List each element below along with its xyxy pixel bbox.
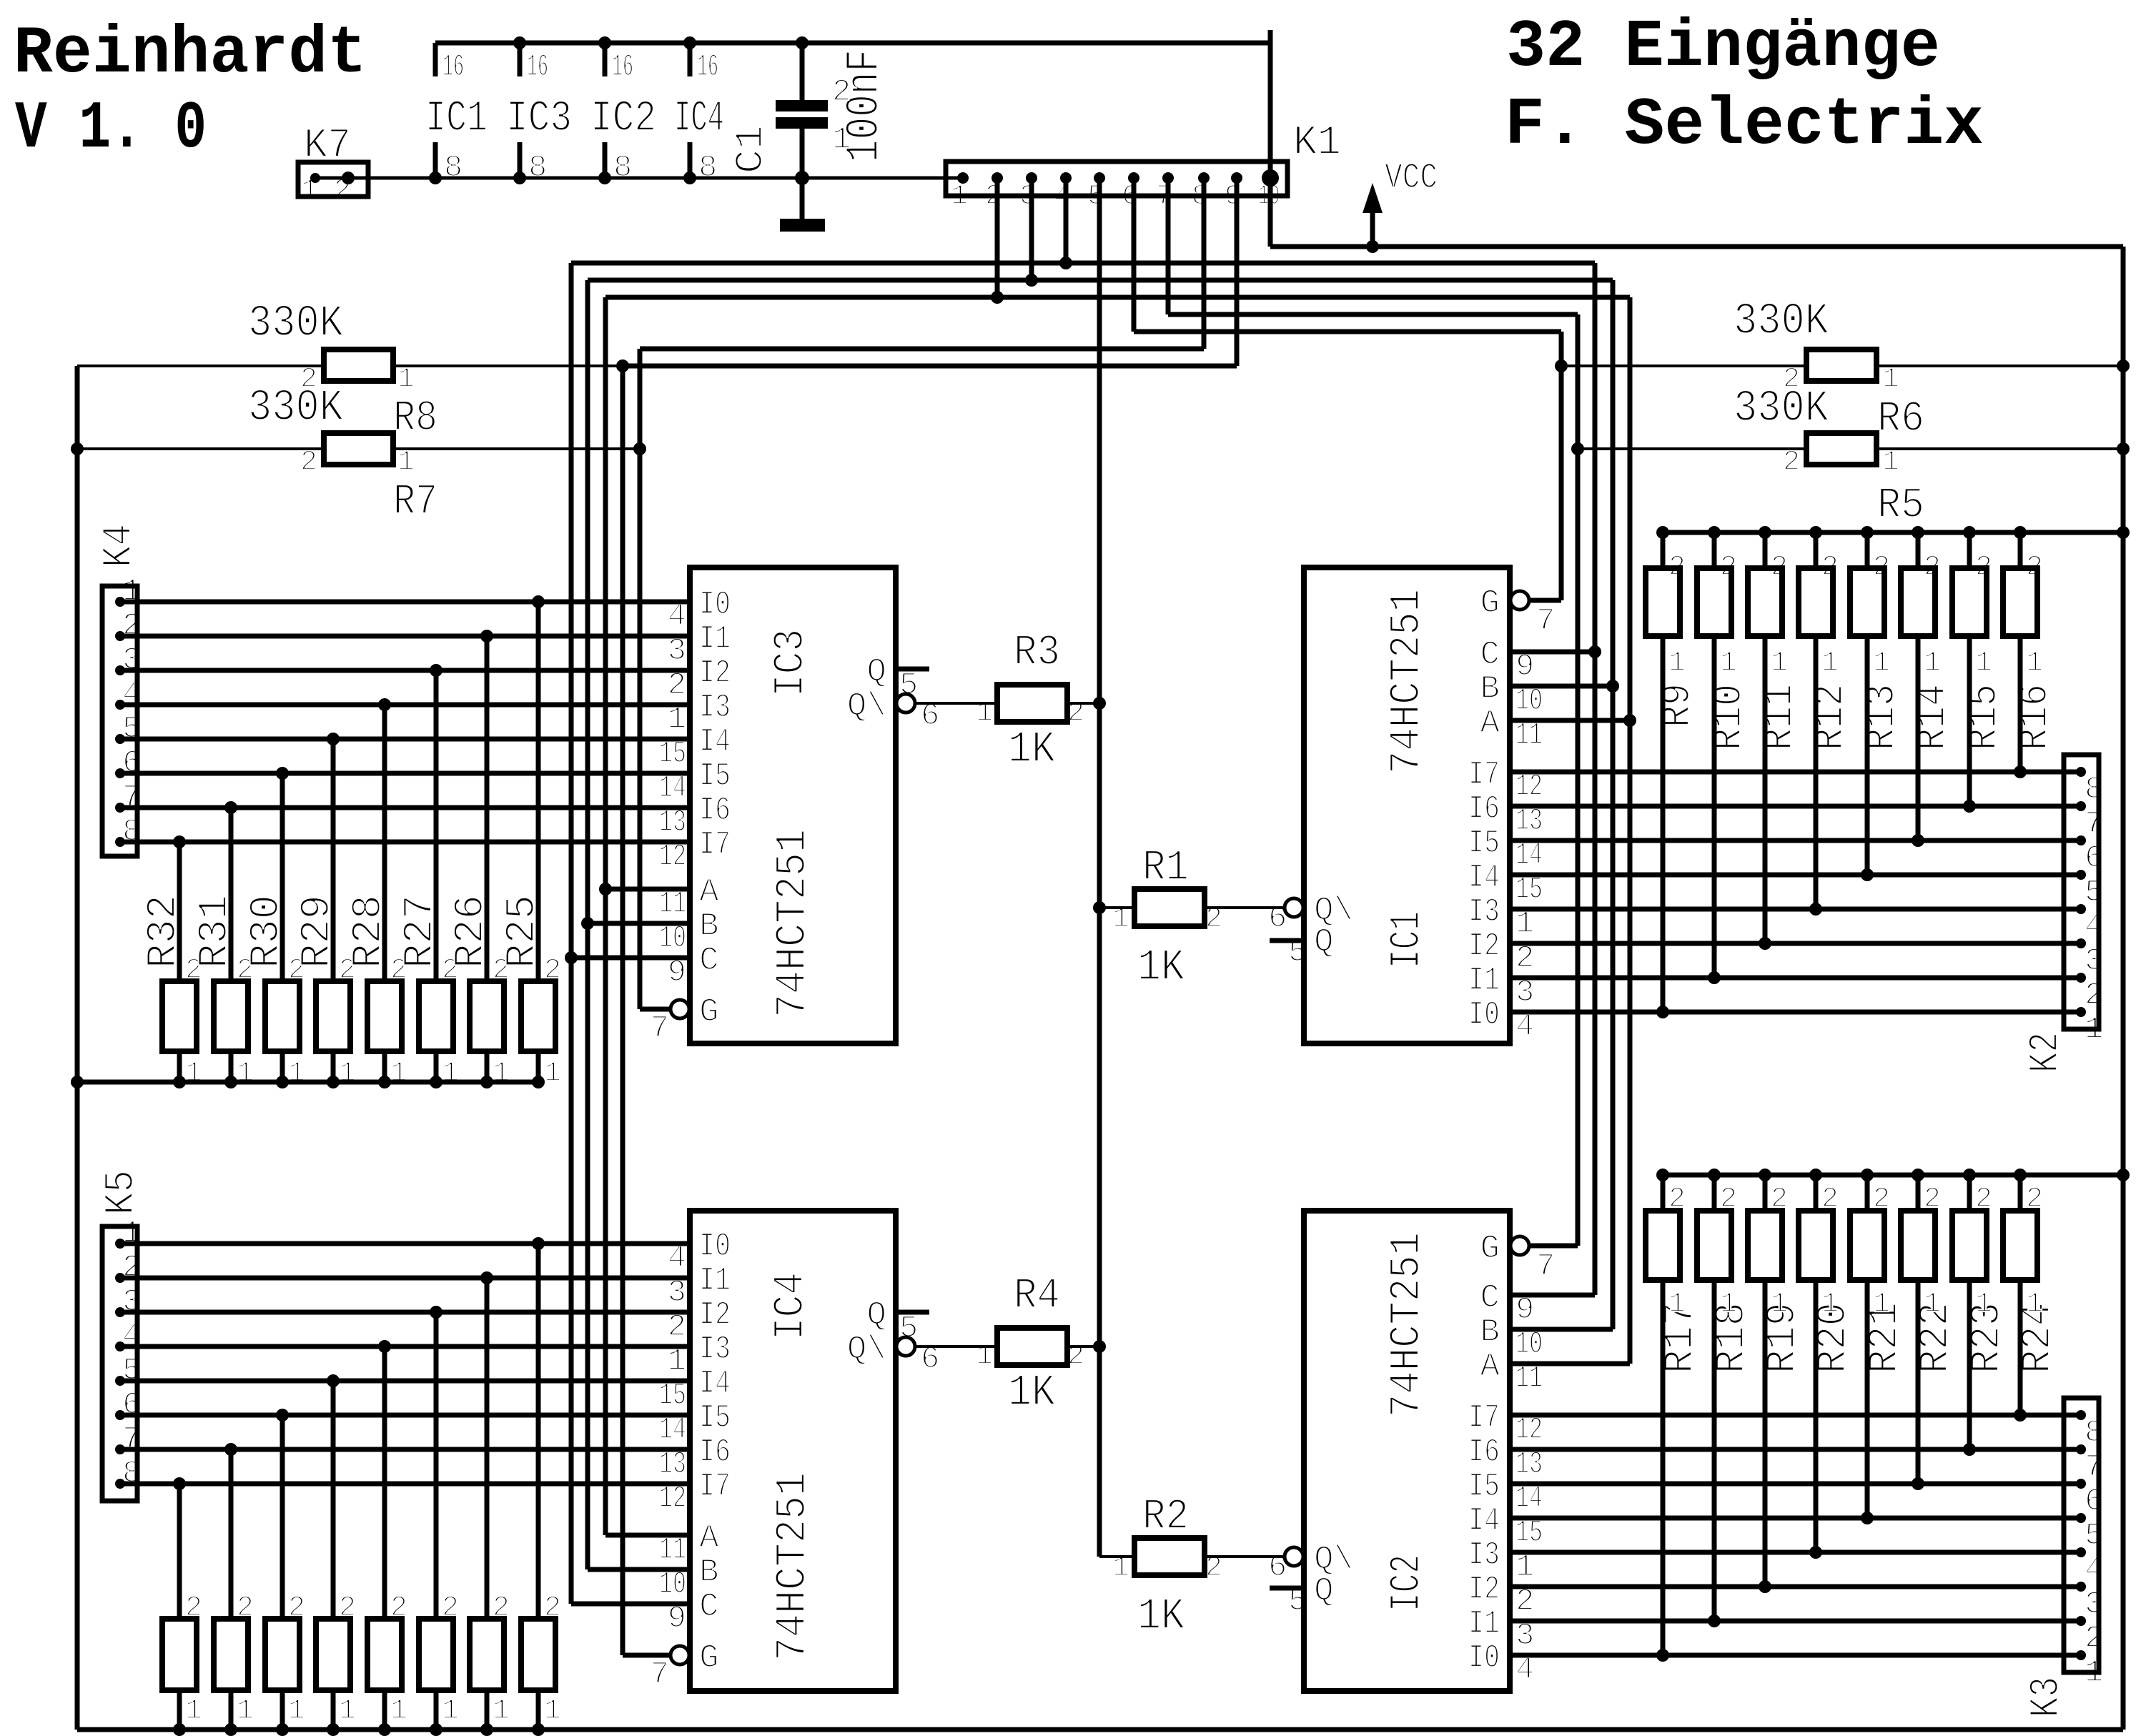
wire R18 top lead	[1712, 1175, 1717, 1211]
svg-text:8: 8	[613, 150, 632, 186]
resistor R2 wire right	[1205, 1555, 1285, 1558]
junction 8-stub 4	[683, 172, 696, 184]
junction R10 rail	[1708, 526, 1721, 539]
svg-text:1: 1	[1668, 648, 1686, 680]
wire R11 top lead	[1763, 532, 1768, 568]
svg-text:B: B	[699, 908, 719, 945]
junction R3 data line	[1093, 697, 1106, 710]
svg-text:V 1. 0: V 1. 0	[15, 91, 207, 167]
svg-text:B: B	[699, 1554, 719, 1591]
wire bank2 3 to VCC rail	[280, 1689, 285, 1730]
junction R6 / G-IC1	[1555, 359, 1568, 372]
IC2 B wire	[1510, 1327, 1613, 1332]
wire tap K5 pin5 pull resistor	[331, 1381, 336, 1619]
K5 pin 5	[115, 1376, 125, 1386]
svg-text:1: 1	[1771, 1289, 1788, 1321]
svg-text:I3: I3	[699, 689, 731, 726]
K2 pin 3	[2076, 938, 2086, 948]
wire tap K4 pin6 pull resistor	[280, 773, 285, 981]
IC supply pin 8 stub 2	[518, 142, 523, 178]
junction R13 rail	[1861, 526, 1874, 539]
wire VCC rail R9-R16	[1663, 530, 2123, 535]
IC3 Q stub pin5	[896, 667, 929, 672]
svg-text:I2: I2	[1468, 928, 1500, 965]
capacitor C1 top plate	[776, 100, 828, 111]
resistor bank2 3	[265, 1619, 300, 1690]
resistor R27	[419, 981, 453, 1051]
wire K5 pin8 to IC4 I7	[120, 1482, 690, 1487]
junction IC1 B	[1606, 680, 1619, 693]
junction R26 rail	[480, 1076, 493, 1088]
wire G-IC3 vertical	[638, 349, 643, 1009]
junction K4 pin1 tap	[532, 595, 545, 608]
svg-text:I7: I7	[699, 826, 731, 863]
junction R24 rail	[2014, 1169, 2027, 1181]
svg-text:32 Eingänge: 32 Eingänge	[1506, 10, 1940, 86]
K1 pin 10	[1262, 169, 1279, 187]
junction K4 pin5 tap	[327, 733, 340, 745]
resistor R2	[1134, 1538, 1205, 1575]
resistor R7 wire left	[77, 447, 324, 450]
svg-text:K5: K5	[99, 1170, 145, 1215]
svg-text:1: 1	[544, 1695, 561, 1727]
K2 pin 1	[2076, 1007, 2086, 1017]
IC supply pin 8 stub 3	[603, 142, 608, 178]
IC4 Q stub pin5	[896, 1310, 929, 1315]
junction C1 GND line	[795, 171, 809, 185]
IC1 C wire	[1510, 650, 1595, 655]
K4 pin 2	[115, 631, 125, 641]
svg-text:I0: I0	[699, 1228, 731, 1265]
svg-text:Q: Q	[1314, 923, 1334, 961]
K5 pin 6	[115, 1410, 125, 1420]
K3 pin 8	[2076, 1410, 2086, 1420]
svg-text:1: 1	[832, 122, 851, 158]
wire G-IC1 horizontal	[1134, 329, 1561, 334]
svg-text:C1: C1	[728, 125, 773, 174]
svg-text:A: A	[699, 1519, 719, 1557]
wire IC1 I1 to K2 pin2	[1510, 976, 2081, 981]
junction R15 row	[1963, 800, 1976, 813]
svg-text:8: 8	[698, 150, 717, 186]
svg-text:74HCT251: 74HCT251	[769, 1472, 818, 1661]
svg-text:7: 7	[1536, 603, 1555, 639]
svg-text:16: 16	[527, 49, 548, 85]
svg-text:R8: R8	[393, 395, 437, 443]
resistor R19	[1748, 1211, 1782, 1280]
resistor R6 wire right	[1876, 364, 2123, 367]
wire B bus horizontal	[588, 278, 1613, 283]
svg-text:I6: I6	[1468, 790, 1500, 828]
resistor R1 wire left	[1099, 906, 1134, 909]
svg-text:1: 1	[237, 1058, 254, 1090]
junction K5 pin6 tap	[276, 1409, 289, 1422]
svg-text:1: 1	[493, 1695, 510, 1727]
wire R9 top lead	[1661, 532, 1666, 568]
svg-text:IC4: IC4	[674, 94, 724, 144]
K2 pin 8	[2076, 767, 2086, 777]
svg-text:74HCT251: 74HCT251	[1383, 1232, 1432, 1417]
junction K5 pin1 tap	[532, 1237, 545, 1250]
wire K4 pin5 to IC3 I4	[120, 737, 690, 742]
wire R12 top lead	[1814, 532, 1819, 568]
junction R11 row	[1759, 937, 1771, 950]
junction bank2 2 rail	[224, 1723, 237, 1736]
wire R21 bottom lead	[1865, 1280, 1870, 1518]
wire tap K4 pin7 pull resistor	[229, 808, 234, 981]
IC3 Qbar wire	[916, 702, 999, 705]
wire K4 pin4 to IC3 I3	[120, 703, 690, 708]
resistor R5 wire right	[1876, 447, 2123, 450]
resistor R13	[1850, 568, 1884, 636]
IC4 Qbar bubble	[896, 1337, 915, 1356]
svg-text:1K: 1K	[1137, 1591, 1185, 1642]
wire G-IC2 vertical	[1576, 314, 1581, 1246]
wire IC1 I7 to K2 pin8	[1510, 770, 2081, 775]
svg-text:1K: 1K	[1008, 1367, 1056, 1418]
svg-text:330K: 330K	[248, 382, 344, 433]
wire K5 pin1 to IC4 I0	[120, 1241, 690, 1246]
wire R9 bottom lead	[1661, 636, 1666, 1012]
junction C1 top	[796, 36, 809, 49]
wire K1 pin4 drop (C)	[1064, 178, 1069, 263]
wire K4 pin3 to IC3 I2	[120, 668, 690, 673]
wire R24 top lead	[2018, 1175, 2023, 1211]
svg-text:I4: I4	[1468, 859, 1500, 896]
wire IC1 I0 to K2 pin1	[1510, 1010, 2081, 1015]
svg-text:1: 1	[1975, 648, 1992, 680]
wire bank2 8 to VCC rail	[536, 1689, 541, 1730]
wire tap K4 pin5 pull resistor	[331, 739, 336, 981]
svg-text:Q: Q	[866, 653, 886, 690]
svg-text:IC3: IC3	[767, 629, 816, 697]
wire K4 pin8 to IC3 I7	[120, 840, 690, 845]
connector K7	[298, 162, 368, 197]
svg-text:1: 1	[544, 1058, 561, 1090]
junction R5 VCC	[2117, 442, 2130, 455]
svg-text:1K: 1K	[1008, 724, 1056, 775]
svg-text:R3: R3	[1014, 629, 1060, 678]
resistor R17	[1646, 1211, 1680, 1280]
wire A bus vertical left	[603, 297, 608, 1535]
junction VCC rail left	[71, 1076, 84, 1088]
junction R4 data line	[1093, 1340, 1106, 1353]
K3 pin 2	[2076, 1616, 2086, 1626]
wire K1 pin2 drop (A)	[995, 178, 1000, 297]
wire IC2 I0 to K3 pin1	[1510, 1653, 2081, 1658]
svg-text:B: B	[1480, 1314, 1500, 1351]
wire R27 to VCC rail	[434, 1051, 439, 1082]
svg-text:8: 8	[528, 150, 547, 186]
IC4 G wire	[623, 1653, 671, 1658]
wire bank2 5 to VCC rail	[382, 1689, 387, 1730]
wire C bus vertical left	[569, 263, 574, 1604]
wire R10 top lead	[1712, 532, 1717, 568]
svg-text:1: 1	[442, 1058, 459, 1090]
IC1 Q stub pin5	[1270, 938, 1304, 943]
K7 pin 1	[310, 173, 320, 183]
K7 pin 2	[342, 172, 355, 184]
junction B line K1 pin3	[1025, 274, 1038, 287]
wire VCC left vertical	[75, 366, 80, 1730]
wire IC2 I7 to K3 pin8	[1510, 1413, 2081, 1418]
svg-text:1K: 1K	[1137, 942, 1185, 993]
wire K5 pin7 to IC4 I6	[120, 1447, 690, 1452]
junction R32 rail	[173, 1076, 186, 1088]
svg-text:I4: I4	[1468, 1502, 1500, 1539]
junction R23 row	[1963, 1443, 1976, 1456]
resistor R1 wire right	[1205, 906, 1285, 909]
IC2 G bubble	[1510, 1236, 1529, 1255]
junction R29 rail	[327, 1076, 340, 1088]
svg-text:R6: R6	[1877, 395, 1924, 444]
K4 pin 6	[115, 768, 125, 778]
junction K4 pin8 tap	[173, 835, 186, 848]
wire R14 top lead	[1916, 532, 1921, 568]
junction R20 row	[1809, 1546, 1822, 1559]
resistor R4	[997, 1328, 1067, 1365]
resistor bank2 7	[470, 1619, 504, 1690]
junction rail VCC right top	[2117, 526, 2130, 539]
svg-text:C: C	[699, 942, 719, 979]
junction bank2 3 rail	[276, 1723, 289, 1736]
capacitor C1 bottom plate	[776, 117, 828, 129]
svg-text:I3: I3	[1468, 1537, 1500, 1574]
IC4 Qbar wire	[916, 1345, 999, 1348]
wire R20 bottom lead	[1814, 1280, 1819, 1552]
svg-text:1: 1	[1924, 1289, 1941, 1321]
resistor R30	[265, 981, 300, 1051]
junction K4 pin3 tap	[430, 664, 442, 677]
svg-text:1: 1	[397, 364, 415, 396]
svg-text:2: 2	[832, 74, 851, 110]
svg-text:16: 16	[442, 49, 464, 85]
svg-text:IC4: IC4	[767, 1272, 816, 1340]
K5 pin 2	[115, 1273, 125, 1283]
IC1 G bubble	[1510, 591, 1529, 610]
svg-text:R1: R1	[1142, 844, 1189, 893]
K3 pin 6	[2076, 1479, 2086, 1489]
junction R9 rail	[1656, 526, 1669, 539]
svg-text:1: 1	[1720, 648, 1737, 680]
resistor R15	[1952, 568, 1987, 636]
svg-text:Q\: Q\	[847, 688, 886, 725]
wire K5 pin5 to IC4 I4	[120, 1379, 690, 1384]
svg-text:Q\: Q\	[847, 1331, 886, 1368]
wire R22 bottom lead	[1916, 1280, 1921, 1484]
resistor R14	[1901, 568, 1935, 636]
junction IC1 C	[1588, 645, 1601, 658]
wire B bus vertical left	[585, 280, 590, 1569]
svg-text:8: 8	[444, 150, 463, 186]
resistor R22	[1901, 1211, 1935, 1280]
svg-text:I1: I1	[1468, 962, 1500, 999]
junction R21 rail	[1861, 1169, 1874, 1181]
wire R18 bottom lead	[1712, 1280, 1717, 1621]
junction R20 rail	[1809, 1169, 1822, 1181]
svg-text:I0: I0	[699, 586, 731, 623]
junction R19 row	[1759, 1580, 1771, 1593]
IC supply pin 8 stub 1	[433, 142, 438, 178]
wire tap K4 pin2 pull resistor	[485, 636, 490, 981]
svg-text:1: 1	[1873, 648, 1890, 680]
wire VCC bottom rail	[77, 1727, 2123, 1732]
IC2 C wire	[1510, 1293, 1595, 1298]
svg-text:I5: I5	[699, 1399, 731, 1437]
svg-text:1: 1	[1771, 648, 1788, 680]
ground symbol	[780, 219, 825, 232]
K1 pin 4	[1060, 172, 1072, 184]
K5 pin 1	[115, 1239, 125, 1249]
wire R11 bottom lead	[1763, 636, 1768, 943]
svg-text:1: 1	[442, 1695, 459, 1727]
resistor bank2 8	[521, 1619, 555, 1690]
svg-text:K4: K4	[97, 524, 143, 567]
IC IC2 74HCT251 body	[1304, 1211, 1510, 1691]
wire R15 bottom lead	[1967, 636, 1972, 806]
svg-text:IC1: IC1	[1383, 911, 1432, 968]
IC3 A wire	[605, 887, 690, 892]
wire R23 top lead	[1967, 1175, 1972, 1211]
junction R22 rail	[1912, 1169, 1924, 1181]
junction 8-stub 1	[429, 172, 442, 184]
junction K5 pin2 tap	[480, 1271, 493, 1284]
junction bank2 5 rail	[378, 1723, 391, 1736]
junction R24 row	[2014, 1409, 2027, 1422]
svg-text:A: A	[699, 873, 719, 911]
wire IC2 I5 to K3 pin6	[1510, 1482, 2081, 1487]
svg-text:G: G	[699, 993, 719, 1031]
wire R29 to VCC rail	[331, 1051, 336, 1082]
wire IC2 I6 to K3 pin7	[1510, 1447, 2081, 1452]
K3 pin 3	[2076, 1582, 2086, 1592]
svg-text:C: C	[699, 1588, 719, 1625]
svg-text:330K: 330K	[248, 298, 344, 349]
svg-text:1: 1	[288, 1058, 305, 1090]
svg-text:I3: I3	[699, 1331, 731, 1368]
K3 pin 4	[2076, 1547, 2086, 1557]
IC4 C wire	[571, 1602, 690, 1607]
svg-text:1: 1	[237, 1695, 254, 1727]
resistor R8 wire right	[393, 364, 623, 367]
IC4 A wire	[605, 1533, 690, 1538]
wire C bus vertical right	[1593, 263, 1598, 1295]
resistor R26	[470, 981, 504, 1051]
wire G-IC3 horizontal	[640, 347, 1204, 352]
junction R14 rail	[1912, 526, 1924, 539]
resistor R20	[1799, 1211, 1833, 1280]
svg-text:7: 7	[1536, 1249, 1555, 1284]
junction bank2 7 rail	[480, 1723, 493, 1736]
svg-text:R2: R2	[1142, 1493, 1189, 1542]
svg-text:1: 1	[1924, 648, 1941, 680]
resistor R1	[1134, 889, 1205, 926]
K1 pin 9	[1231, 172, 1242, 184]
wire tap K5 pin4 pull resistor	[382, 1346, 387, 1619]
wire C bus horizontal	[571, 261, 1595, 266]
junction R6 VCC	[2117, 359, 2130, 372]
svg-text:I1: I1	[699, 1262, 731, 1299]
K1 pin 2	[992, 172, 1003, 184]
svg-text:1: 1	[185, 1058, 202, 1090]
svg-text:R4: R4	[1014, 1272, 1060, 1321]
svg-text:K2: K2	[2023, 1032, 2070, 1073]
wire R17 top lead	[1661, 1175, 1666, 1211]
wire G-IC2 horizontal	[1168, 312, 1578, 317]
wire K1 pin5 drop (data)	[1097, 178, 1102, 1557]
junction supply stub 3	[598, 36, 611, 49]
K1 pin 8	[1198, 172, 1210, 184]
svg-text:R7: R7	[393, 478, 437, 527]
junction R28 rail	[378, 1076, 391, 1088]
wire VCC rail R17-R24	[1663, 1173, 2123, 1178]
junction C line K1 pin4	[1059, 257, 1072, 269]
svg-text:I0: I0	[1468, 1640, 1500, 1677]
wire K5 pin6 to IC4 I5	[120, 1413, 690, 1418]
wire IC1 I3 to K2 pin4	[1510, 907, 2081, 912]
junction K5 pin4 tap	[378, 1340, 391, 1353]
svg-text:1: 1	[2026, 648, 2043, 680]
K1 pin 5	[1094, 172, 1105, 184]
wire bank2 1 to VCC rail	[177, 1689, 182, 1730]
svg-text:I2: I2	[1468, 1571, 1500, 1608]
resistor R11	[1748, 568, 1782, 636]
wire K1 pin10 to VCC rail	[1268, 30, 1273, 247]
K4 pin 7	[115, 803, 125, 813]
svg-text:2: 2	[300, 447, 317, 479]
junction R11 rail	[1759, 526, 1771, 539]
K2 pin 4	[2076, 904, 2086, 914]
wire G-IC4 horizontal	[623, 364, 1237, 369]
IC supply pin 8 stub 4	[688, 142, 693, 178]
resistor R25	[521, 981, 555, 1051]
junction rail VCC right bottom	[2117, 1169, 2130, 1181]
svg-text:1: 1	[339, 1695, 356, 1727]
svg-text:G: G	[1480, 1230, 1500, 1267]
K5 pin 4	[115, 1341, 125, 1351]
resistor R7	[324, 433, 393, 465]
wire IC1 I2 to K2 pin3	[1510, 941, 2081, 946]
wire A bus horizontal	[605, 295, 1630, 300]
junction R19 rail	[1759, 1169, 1771, 1181]
wire R14 bottom lead	[1916, 636, 1921, 840]
svg-text:1: 1	[1668, 1289, 1686, 1321]
wire R32 to VCC rail	[177, 1051, 182, 1082]
resistor R32	[162, 981, 197, 1051]
junction R23 rail	[1963, 1169, 1976, 1181]
resistor R4 wire right	[1067, 1345, 1099, 1348]
resistor R8	[324, 349, 393, 381]
svg-text:I6: I6	[699, 1434, 731, 1471]
svg-text:G: G	[1480, 585, 1500, 622]
resistor R7 wire right	[393, 447, 640, 450]
wire K1 pin8 drop	[1202, 178, 1207, 349]
IC supply pin 16 stub 4	[688, 43, 693, 76]
IC3 G bubble	[671, 1000, 689, 1018]
IC3 C wire	[571, 956, 690, 961]
resistor R16	[2003, 568, 2037, 636]
svg-text:G: G	[699, 1640, 719, 1677]
resistor R6	[1806, 349, 1876, 381]
junction IC1 A	[1623, 714, 1636, 727]
wire VCC right vertical	[2121, 247, 2126, 1730]
K2 pin 2	[2076, 973, 2086, 983]
wire K5 pin4 to IC4 I3	[120, 1344, 690, 1349]
svg-text:VCC: VCC	[1385, 158, 1438, 199]
svg-text:16: 16	[612, 49, 633, 85]
svg-text:C: C	[1480, 1279, 1500, 1316]
K4 pin 4	[115, 700, 125, 710]
